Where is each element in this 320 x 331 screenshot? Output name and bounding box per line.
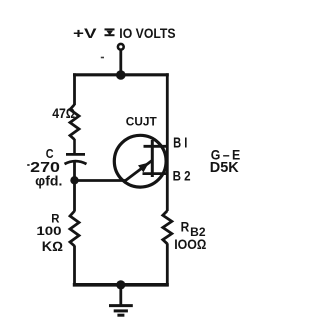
svg-text:B 2: B 2 <box>173 168 191 184</box>
label RB2 <box>181 220 206 239</box>
wire bottom rail <box>73 283 169 287</box>
emitter arrowhead <box>138 163 149 173</box>
junction dot bottom rail <box>116 280 125 289</box>
svg-text:B I: B I <box>173 135 187 151</box>
capacitor C bottom curved plate <box>65 161 87 164</box>
capacitor C top plate <box>66 153 85 156</box>
junction dot top rail <box>116 70 126 80</box>
scan speck <box>101 57 104 59</box>
supply label 10 VOLTS <box>119 26 175 42</box>
svg-text:IO VOLTS: IO VOLTS <box>119 26 175 42</box>
resistor R1 47 ohm <box>70 105 79 140</box>
wire left branch from top rail to 47 ohm <box>73 73 76 105</box>
pin B1 lead <box>144 145 168 148</box>
ground bar 1 <box>109 304 133 307</box>
wire top rail <box>73 73 169 76</box>
wire 47 ohm to capacitor C <box>73 139 76 154</box>
label R <box>51 211 59 225</box>
resistor RB2 zigzag <box>163 211 172 244</box>
wire right branch from top rail to B1 region <box>166 73 169 211</box>
svg-text:IOOΩ: IOOΩ <box>174 237 207 252</box>
ground stem <box>119 285 122 306</box>
label pfd value <box>35 173 62 188</box>
svg-text:CUJT: CUJT <box>126 114 158 128</box>
resistor R2 100K zigzag <box>70 211 79 246</box>
wire left branch emitter node to R <box>73 180 76 211</box>
ground bar 3 <box>117 314 124 317</box>
wire R to bottom rail <box>73 246 76 287</box>
label 270 <box>27 160 60 176</box>
pin B2 lead <box>143 172 168 175</box>
svg-text:R: R <box>181 220 190 235</box>
wire RB2 to bottom rail <box>166 243 169 286</box>
label G-E <box>211 148 241 164</box>
transistor base bar <box>151 140 154 177</box>
svg-text:D5K: D5K <box>210 160 239 176</box>
label 100 <box>36 224 61 238</box>
ground bar 2 <box>114 309 128 312</box>
svg-text:KΩ: KΩ <box>42 239 63 254</box>
label B2 <box>173 168 191 184</box>
label C <box>46 147 54 161</box>
label CUJT <box>126 114 158 128</box>
svg-text:47Ω: 47Ω <box>52 106 75 122</box>
label B1 <box>173 135 187 151</box>
label D5K <box>210 160 239 176</box>
wire emitter diagonal into transistor <box>126 161 153 181</box>
transistor Q1 body circle <box>114 135 166 187</box>
label K ohm <box>42 239 63 254</box>
wire +V terminal to top rail <box>119 51 122 76</box>
wire capacitor to emitter node <box>73 163 76 182</box>
supply label +V <box>73 26 97 42</box>
label 100 ohm <box>174 237 207 252</box>
wire emitter horizontal <box>75 179 127 182</box>
svg-text:100: 100 <box>36 224 61 238</box>
svg-text:C: C <box>46 147 54 161</box>
label 47 ohm <box>52 106 75 122</box>
svg-text:φfd.: φfd. <box>35 173 62 188</box>
supply equals sign <box>105 29 115 35</box>
svg-text:+V: +V <box>73 26 97 42</box>
terminal +V <box>118 44 124 50</box>
junction dot emitter node <box>70 176 78 184</box>
